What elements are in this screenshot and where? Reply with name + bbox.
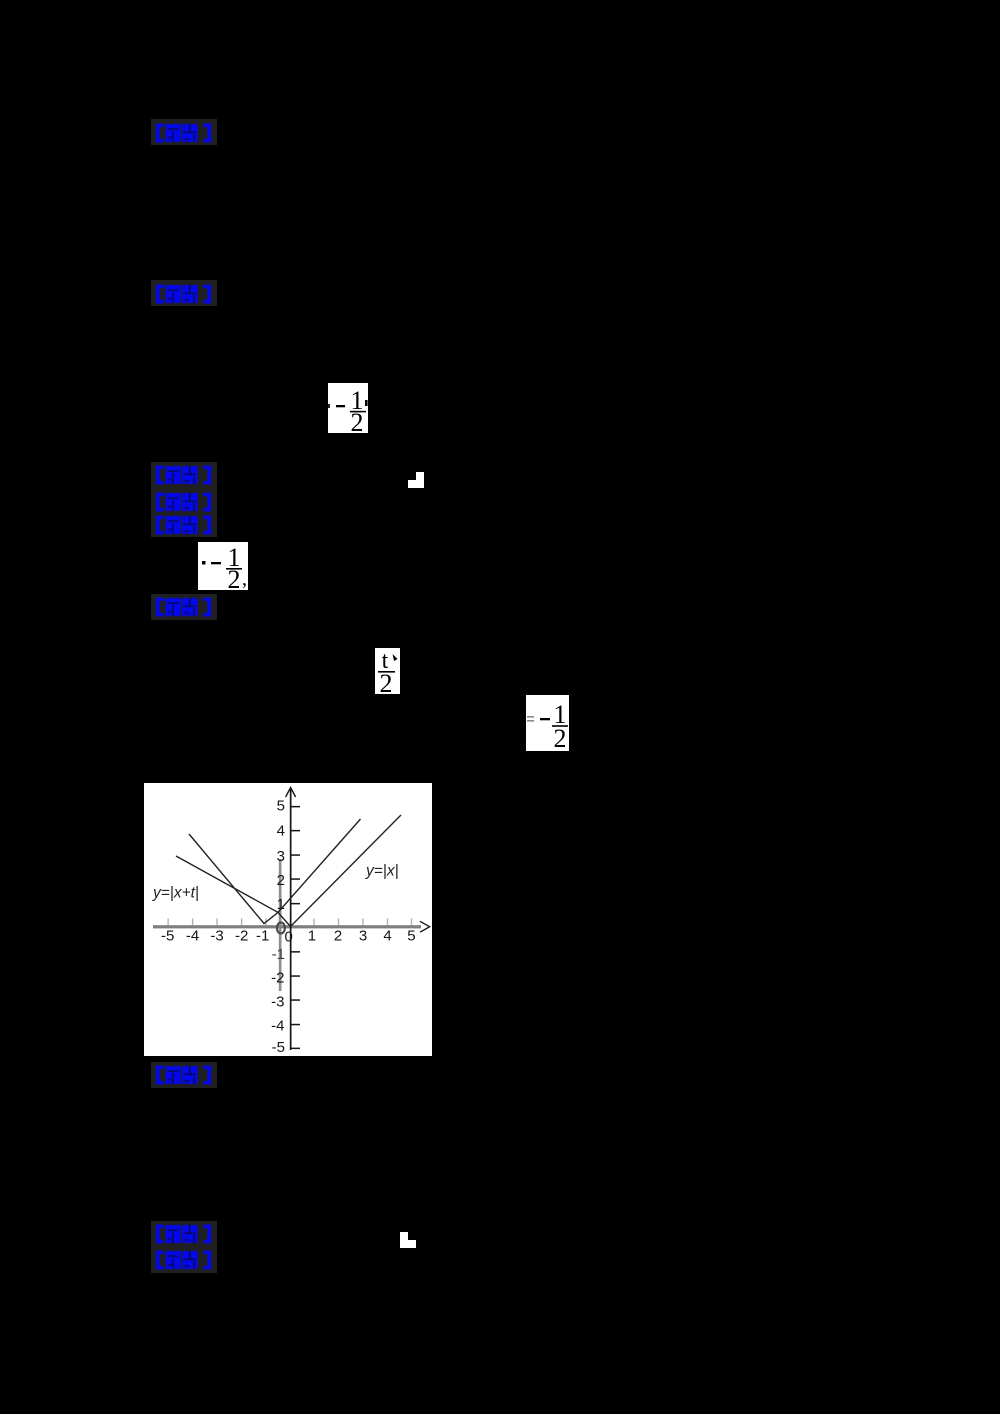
svg-text:4: 4	[383, 928, 391, 945]
svg-text:1: 1	[308, 928, 316, 945]
svg-text:y=|x+t|: y=|x+t|	[152, 885, 199, 902]
black y-axis	[290, 789, 292, 1050]
svg-text:-5: -5	[161, 928, 174, 945]
light grey x ticks above axis	[167, 919, 412, 926]
triple label cluster: 考点/专题/分析	[151, 462, 217, 537]
shared blue label glyph definition	[0, 0, 1, 1]
svg-text:2: 2	[554, 724, 567, 751]
svg-text:y=|x|: y=|x|	[365, 863, 399, 880]
svg-text:2: 2	[380, 669, 393, 694]
graph line y=|x+t|	[189, 819, 361, 924]
label 2 (点评)	[151, 280, 217, 306]
formula image: = -1/2 (white box 4)	[526, 695, 569, 751]
svg-text:2: 2	[228, 565, 241, 590]
label 解答	[151, 594, 217, 620]
svg-text:-2: -2	[235, 928, 248, 945]
svg-text:3: 3	[359, 928, 367, 945]
svg-text:4: 4	[277, 823, 285, 840]
ghost zero	[277, 923, 285, 934]
svg-text:0: 0	[285, 929, 293, 946]
formula image: t/2 (white box 3)	[375, 648, 400, 694]
small white step mark (cropped formula)	[408, 472, 424, 488]
label 点评 (below chart)	[151, 1062, 217, 1088]
svg-text:3: 3	[277, 848, 285, 865]
small white L mark (cropped formula)	[400, 1232, 416, 1248]
svg-text:1: 1	[277, 896, 285, 913]
curve labels	[152, 863, 399, 902]
svg-text:5: 5	[407, 928, 415, 945]
chart: y=|x| and y=|x+t|	[144, 783, 432, 1056]
svg-text:-1: -1	[256, 928, 269, 945]
svg-text:2: 2	[334, 928, 342, 945]
formula image: .-1/2, (white box 2)	[198, 542, 248, 590]
axis numerals	[161, 798, 416, 1057]
svg-text:,: ,	[242, 568, 247, 590]
black y ticks	[292, 806, 301, 1049]
svg-text:-2: -2	[271, 970, 284, 987]
svg-text:5: 5	[277, 798, 285, 815]
graph line y=|x| left arm	[176, 856, 291, 927]
ghost grey y-axis	[279, 859, 282, 991]
svg-text:2: 2	[277, 872, 285, 889]
svg-text:-1: -1	[272, 946, 285, 963]
y-axis arrow	[286, 788, 296, 798]
svg-text:-4: -4	[186, 928, 199, 945]
svg-text:2: 2	[351, 408, 364, 433]
grey thick x-axis	[153, 925, 421, 928]
svg-text:-5: -5	[272, 1039, 285, 1056]
label 1 (解答)	[151, 119, 217, 145]
x-axis black arrow head	[420, 921, 430, 932]
graph line y=|x| right arm	[291, 815, 402, 927]
svg-text:-4: -4	[271, 1018, 284, 1035]
svg-text:-3: -3	[271, 994, 284, 1011]
formula image: -1/2 (white box 1)	[328, 383, 368, 433]
svg-text:-3: -3	[210, 928, 223, 945]
double label cluster 考点/专题	[151, 1221, 217, 1273]
